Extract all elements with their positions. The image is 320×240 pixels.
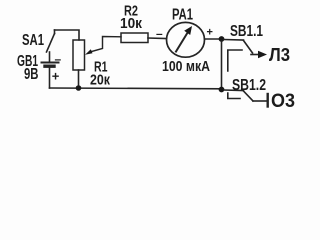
meter PA1 <box>167 22 205 57</box>
wiper arrow of R1 <box>85 37 121 55</box>
wire meter to node A <box>205 38 222 40</box>
svg-text:O3: O3 <box>271 91 295 112</box>
resistor R1 (potentiometer body) <box>73 40 85 70</box>
switch SA1 <box>47 30 55 62</box>
wire node A down to node B <box>221 41 223 89</box>
svg-text:PA1: PA1 <box>172 7 193 24</box>
wire SB1.2 output to terminal bar <box>253 100 267 102</box>
switch contact SB1.2 <box>224 90 253 101</box>
svg-text:Л3: Л3 <box>269 45 290 65</box>
svg-text:9В: 9В <box>24 66 39 83</box>
wire R1 bottom lead <box>78 70 80 88</box>
svg-text:SA1: SA1 <box>22 32 44 49</box>
svg-text:–: – <box>156 27 163 41</box>
svg-text:SB1.2: SB1.2 <box>232 77 266 94</box>
wire R2 to meter <box>148 37 167 40</box>
switch contact SB1.1 <box>224 40 253 72</box>
svg-text:+: + <box>52 68 60 83</box>
node junction R1/bottom rail <box>76 85 82 91</box>
svg-text:10к: 10к <box>120 15 142 32</box>
svg-text:20к: 20к <box>90 72 110 89</box>
wire battery to bottom rail <box>49 67 51 89</box>
svg-text:100 мкА: 100 мкА <box>162 58 210 75</box>
arrow to terminal L3 <box>251 51 267 58</box>
resistor R2 <box>121 33 148 43</box>
svg-text:–: – <box>55 52 62 66</box>
wire bottom rail <box>50 87 223 90</box>
wire top rail <box>55 30 80 40</box>
terminal bar (O3) <box>267 94 269 107</box>
node A junction <box>219 36 225 42</box>
svg-text:+: + <box>207 27 213 39</box>
battery GB1 <box>42 63 59 67</box>
svg-text:SB1.1: SB1.1 <box>230 23 263 40</box>
node B junction <box>219 87 225 93</box>
